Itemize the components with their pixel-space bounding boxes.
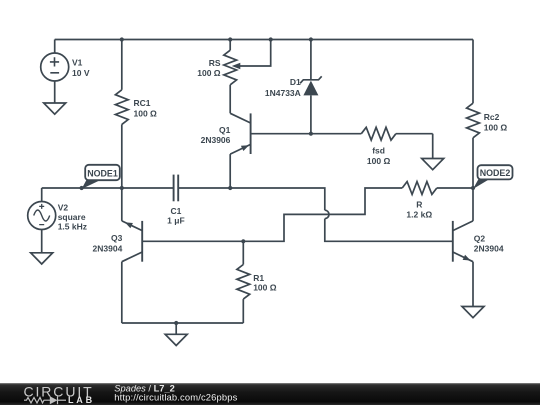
svg-text:2N3906: 2N3906 (201, 135, 231, 145)
svg-text:C1: C1 (170, 206, 181, 216)
transistor Q3 (NPN 2N3904, mirrored) (122, 188, 142, 323)
svg-text:V1: V1 (72, 58, 83, 68)
wire: bottom rail (Q3 collector to R1) (122, 322, 244, 324)
svg-text:fsd: fsd (372, 146, 385, 156)
svg-text:NODE2: NODE2 (480, 168, 511, 178)
label V1 value (72, 58, 90, 78)
junction: NODE2 (471, 186, 475, 190)
ground (fsd) (422, 134, 444, 170)
svg-text:2N3904: 2N3904 (474, 243, 504, 253)
ground (below V2) (31, 253, 53, 264)
svg-text:http://circuitlab.com/c26pbps: http://circuitlab.com/c26pbps (114, 392, 237, 403)
junction: top rail / wiper (269, 37, 273, 41)
junction: RC1 / Q3 emitter (120, 186, 124, 190)
resistor R (402, 182, 473, 195)
resistor fsd (311, 127, 433, 140)
label V2 value (58, 203, 87, 232)
svg-text:10 V: 10 V (72, 68, 90, 78)
svg-text:RS: RS (209, 58, 221, 68)
wire: RS wiper to top rail (232, 40, 271, 70)
junction: top rail / RS (228, 37, 232, 41)
svg-text:Rc2: Rc2 (484, 112, 500, 122)
svg-text:100 Ω: 100 Ω (253, 283, 277, 293)
svg-text:RC1: RC1 (134, 98, 151, 108)
svg-text:LAB: LAB (68, 395, 95, 405)
label C1 value (167, 206, 184, 226)
label Q2 value (474, 233, 504, 253)
label D1 value (265, 77, 301, 98)
transistor Q1 (PNP 2N3906) (230, 113, 311, 188)
ground (below V1) (44, 103, 66, 114)
ground (Q2 emitter) (462, 307, 484, 318)
junction: bottom rail / ground (174, 321, 178, 325)
wire: Q3 base to resistor R and NODE2 (142, 188, 402, 241)
zener diode D1 (300, 40, 322, 134)
junction: NODE1 tap (80, 186, 84, 190)
resistor R1 (237, 241, 250, 323)
svg-text:2N3904: 2N3904 (93, 243, 123, 253)
svg-text:Q2: Q2 (474, 233, 486, 243)
svg-text:R1: R1 (253, 273, 264, 283)
junction: top rail / RC1 (120, 37, 124, 41)
svg-text:1 μF: 1 μF (167, 216, 184, 226)
svg-text:100 Ω: 100 Ω (484, 123, 508, 133)
resistor Rc2 (467, 40, 480, 189)
label Q1 value (201, 125, 231, 145)
CircuitLab logo mini schematic (resistor + diode) (24, 396, 66, 404)
svg-text:Q3: Q3 (111, 233, 123, 243)
svg-text:1.2 kΩ: 1.2 kΩ (406, 210, 432, 220)
svg-text:100 Ω: 100 Ω (134, 109, 158, 119)
label Rc2 value (484, 112, 508, 132)
resistor RC1 (115, 40, 128, 189)
label RS value (197, 58, 221, 78)
label Q3 value (93, 233, 123, 254)
transistor Q2 (NPN 2N3904) (453, 188, 473, 307)
label R1 value (253, 273, 277, 293)
junction: C1 / Q1 emitter (228, 186, 232, 190)
svg-text:1.5 kHz: 1.5 kHz (58, 221, 87, 231)
svg-text:R: R (416, 200, 422, 210)
svg-text:NODE1: NODE1 (87, 169, 118, 179)
svg-text:D1: D1 (290, 77, 301, 87)
label fsd value (367, 146, 391, 166)
voltage source V1 (41, 40, 69, 104)
svg-text:1N4733A: 1N4733A (265, 88, 301, 98)
node NODE2 (473, 165, 513, 189)
junction: Q3 base / R1 (241, 239, 245, 243)
wire: top supply rail (55, 39, 473, 41)
svg-text:100 Ω: 100 Ω (367, 156, 391, 166)
voltage source V2 (28, 188, 56, 253)
label RC1 value (134, 98, 158, 119)
ground (bottom rail) (165, 323, 187, 346)
junction: D1 / Q1 base / fsd (309, 132, 313, 136)
label R value (406, 200, 432, 220)
wire: NODE1 net (V2 to C1) (42, 187, 174, 189)
svg-text:Q1: Q1 (219, 125, 231, 135)
junction: top rail / D1 (309, 37, 313, 41)
potentiometer RS (224, 40, 237, 114)
capacitor C1 (174, 175, 179, 202)
wire: C1 to Q2 base (vertical hop over crossing) (178, 188, 453, 241)
node NODE1 (82, 165, 120, 189)
svg-text:100 Ω: 100 Ω (197, 68, 221, 78)
